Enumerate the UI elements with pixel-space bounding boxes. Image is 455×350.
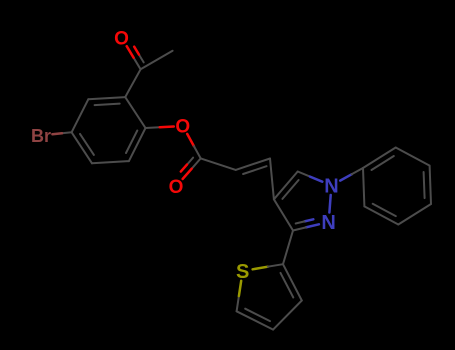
double bond C4=C5 (benzene) [72,132,94,163]
svg-text:O: O [175,117,190,138]
bond C3p-C2t (pyrazole-thiophene) [283,231,293,265]
double bond Ca=Cb (acrylate C=C) [236,159,270,175]
bond P2-P3 (phenyl) [396,148,430,166]
bond C1-C2 (benzene) [125,97,145,128]
bond N1-N2 (pyrazole) [329,195,330,213]
bond P4-P5 (phenyl) [398,204,431,225]
bond C1-O1 (ester O) [146,127,174,129]
double bond Ck=Ok (ketone C=O) [127,46,144,69]
svg-text:O: O [114,28,129,49]
double bond C6=C1 (benzene) [126,128,146,161]
bond O1-Cc [187,134,201,159]
double bond P1=P2 (phenyl) [363,148,396,171]
bond C3-C4 (pyrazole) [274,199,293,230]
bond C5-C6 (benzene) [92,161,129,163]
double bond C2=C3 (benzene) [88,97,125,105]
bond C3-C4 (benzene) [72,99,89,132]
bond C2-Ck (acetyl) [125,69,140,97]
double bond P5=P6 (phenyl) [364,204,398,225]
double bond N2=C3 (pyrazole) [293,219,319,230]
svg-text:O: O [169,177,184,198]
bond Cb-C4p [270,159,274,200]
bond C5t-S (thiophene) [237,281,242,312]
bond Cc-Ca [201,158,236,170]
double bond P3=P4 (phenyl) [424,166,431,204]
svg-text:N: N [321,212,335,234]
double bond C4=C5 (pyrazole) [274,172,299,200]
double bond C2t=C3t (thiophene) [281,264,302,300]
bond Ck-CH3 [141,51,173,70]
svg-text:N: N [324,176,338,198]
bond N1-P1 (N-phenyl) [340,168,363,181]
bond C4-Br [52,132,71,134]
svg-text:S: S [236,261,249,283]
bond P6-P1 (phenyl) [363,168,364,206]
double bond Cc=O2 (ester C=O) [181,158,201,179]
double bond C4t=C5t (thiophene) [237,309,274,330]
bond C3t-C4t (thiophene) [273,301,302,330]
bond S-C2t (thiophene) [253,264,283,269]
svg-text:Br: Br [31,126,51,146]
bond C5-N1 (pyrazole) [298,172,323,182]
